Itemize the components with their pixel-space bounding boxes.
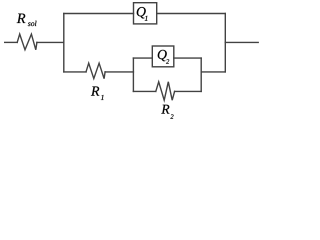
resistor R1 bbox=[86, 63, 105, 78]
label Q1 subscript "1" bbox=[145, 16, 148, 21]
resistor Rsol bbox=[17, 34, 37, 50]
node B sub-network left bar bbox=[132, 58, 134, 91]
wire output right bbox=[225, 41, 258, 43]
box Q2 bbox=[152, 46, 174, 67]
label R2 "R" bbox=[161, 105, 169, 114]
wire top branch right bbox=[157, 13, 226, 15]
box Q1 bbox=[134, 3, 157, 24]
wire top branch left bbox=[64, 13, 134, 15]
wire R2 branch left bbox=[133, 90, 155, 92]
label Rsol "R" bbox=[17, 14, 26, 23]
label R1 "R" bbox=[91, 87, 99, 96]
label Q1 "Q" bbox=[137, 7, 146, 18]
wire R1 to node B bbox=[105, 71, 133, 73]
label Rsol subscript "sol" bbox=[28, 22, 31, 26]
label R1 subscript "1" bbox=[101, 95, 104, 100]
wire input left bbox=[5, 41, 18, 43]
node A left junction bar bbox=[63, 14, 65, 72]
node C sub-network right bar bbox=[200, 58, 202, 91]
wire Rsol to node A bbox=[37, 41, 64, 43]
wire Q2 branch left bbox=[133, 57, 152, 59]
resistor R2 bbox=[156, 82, 175, 100]
node D right junction bar bbox=[224, 14, 226, 72]
wire Q2 branch right bbox=[174, 57, 201, 59]
label Q2 subscript "2" bbox=[166, 59, 169, 63]
wire bottom branch left bbox=[64, 71, 86, 73]
label Q2 "Q" bbox=[158, 50, 167, 61]
wire node C to node D bbox=[201, 71, 225, 73]
label R2 subscript "2" bbox=[170, 114, 173, 118]
wire R2 branch right bbox=[175, 90, 202, 92]
